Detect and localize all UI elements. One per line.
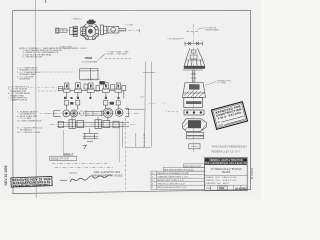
plan view handwheel nut (top) — [87, 20, 96, 25]
mid-right note text block A — [212, 146, 248, 154]
plan view left bolt flange — [70, 26, 78, 36]
svg-text:ADDED DRIP CONN. 3-2-37: ADDED DRIP CONN. 3-2-37 — [157, 179, 184, 182]
svg-text:10 - DRIP CONNECTION: 10 - DRIP CONNECTION — [17, 120, 42, 122]
title block small rows — [206, 176, 237, 185]
right elevation lower flange — [184, 110, 204, 115]
right elevation body dark band — [186, 101, 201, 104]
title block header bar 2 — [205, 162, 247, 165]
lower row fitting 2 — [95, 120, 110, 129]
view caption — [92, 171, 123, 177]
top valve cluster 4 — [94, 83, 109, 99]
notes block — [19, 46, 88, 59]
lower row drip stem — [83, 128, 99, 141]
inter-row connectors — [72, 117, 108, 121]
right elevation stem collars — [186, 48, 203, 60]
top valve cluster 3 — [81, 83, 94, 99]
tag detail leader — [98, 54, 105, 61]
svg-text:THE ALBUQUERQUE GAS & ELEC CO: THE ALBUQUERQUE GAS & ELEC CO — [205, 162, 247, 165]
main row big flange circle D — [103, 108, 113, 118]
svg-text:DWG: DWG — [206, 188, 212, 190]
leader dash group 2 — [38, 90, 62, 92]
svg-text:REVISED & REDRAWN 12-14-36: REVISED & REDRAWN 12-14-36 — [157, 172, 189, 175]
hatched body dark fill — [188, 120, 201, 128]
lower row centerline — [50, 124, 136, 126]
plan view left pipe — [56, 28, 68, 33]
dimension dash row 2 — [55, 166, 113, 168]
right elevation yoke flange — [184, 60, 205, 66]
main row flange circle B — [71, 110, 78, 117]
svg-text:5 - TEST AT 300 LBS: 5 - TEST AT 300 LBS — [19, 56, 43, 59]
right thread leader — [205, 82, 217, 86]
small dim dashes — [149, 103, 156, 105]
main row pipe lines — [85, 111, 103, 115]
plan view right valve unit — [108, 26, 126, 33]
svg-text:FEDERAL LIGHT & TRACTION: FEDERAL LIGHT & TRACTION — [209, 159, 242, 162]
top cluster extra fittings — [59, 84, 126, 99]
svg-text:REV. PER LETTER OF 12-4-36: REV. PER LETTER OF 12-4-36 — [164, 169, 194, 171]
title block number cell — [206, 186, 247, 191]
svg-text:FEDERAL L&T CO. N.Y.: FEDERAL L&T CO. N.Y. — [212, 150, 241, 153]
top valve cluster 1 — [63, 83, 70, 99]
right elevation bonnet cluster — [183, 83, 206, 98]
lower row fitting 3 — [59, 121, 120, 128]
right elevation centerline — [193, 24, 195, 153]
main row right C bracket — [125, 109, 129, 117]
top cluster bottom dots — [64, 97, 119, 99]
svg-text:NOV 16 1936: NOV 16 1936 — [4, 165, 8, 185]
svg-text:6 —: 6 — — [163, 103, 167, 105]
extension line from drip detail — [62, 130, 64, 156]
top cluster dark item — [99, 81, 105, 84]
left column callout text group 3 — [17, 111, 42, 123]
stem ticks — [191, 74, 197, 78]
svg-text:CHANGED VALVE SIZES 1-9-37: CHANGED VALVE SIZES 1-9-37 — [157, 176, 188, 179]
bonnet hatch dark center — [189, 84, 200, 89]
right elevation stem mid — [191, 70, 193, 83]
lower row pipe — [57, 123, 129, 127]
approval stamp (rotated) — [211, 102, 247, 130]
svg-text:THIS VALVE FURNISHED BY: THIS VALVE FURNISHED BY — [212, 146, 248, 149]
svg-text:VALVES: VALVES — [222, 171, 231, 174]
connectors above main row — [65, 100, 121, 110]
svg-text:SIDE - ELEVATION VIEW: SIDE - ELEVATION VIEW — [94, 171, 121, 174]
dimension dash row 1 — [52, 162, 109, 164]
dimension vertical pair — [144, 62, 147, 148]
paper grain — [0, 0, 261, 200]
svg-text:APPROVED AS NOTED 5-1-37: APPROVED AS NOTED 5-1-37 — [157, 186, 187, 189]
svg-text:¾ SQ STEM: ¾ SQ STEM — [167, 37, 179, 40]
view caption dash — [69, 172, 77, 174]
main row light circle C — [79, 111, 84, 116]
svg-text:DETAIL — THIS DWG: DETAIL — THIS DWG — [107, 53, 128, 56]
pipe end ticks — [86, 110, 102, 116]
tag detail box — [80, 68, 98, 79]
dimension tie bar — [143, 71, 155, 73]
leader dash group 2b — [30, 86, 58, 88]
right elevation handwheel — [185, 42, 202, 46]
svg-text:DRAWN J.B.K. DATE 10-12-3: DRAWN J.B.K. DATE 10-12-36 — [206, 176, 237, 179]
right elevation top cross — [186, 30, 199, 32]
left column callout text group 2 — [8, 85, 31, 102]
svg-text:TRACED R.M. SCALE 3"=1'-: TRACED R.M. SCALE 3"=1'-0" — [206, 179, 237, 182]
right elevation dark band — [184, 66, 205, 69]
svg-text:5062: 5062 — [219, 187, 225, 190]
svg-text:SEE DWG B-1491: SEE DWG B-1491 — [184, 166, 202, 168]
right elevation line under band — [183, 69, 203, 71]
svg-text:ITEM: ITEM — [85, 56, 93, 60]
plan view centerline — [56, 29, 140, 32]
signature squiggle — [70, 175, 112, 182]
small bottom box — [189, 144, 200, 151]
stacked rect upper — [186, 133, 204, 136]
top valve cluster 2 — [70, 83, 81, 99]
revision table — [151, 164, 205, 190]
plan view body flange (scalloped circle) — [82, 23, 99, 40]
stacked rect lower — [186, 136, 204, 139]
svg-text:SCREWED: SCREWED — [17, 79, 31, 81]
svg-text:SRO-Z: SRO-Z — [64, 152, 74, 156]
svg-text:CLAMP & BOLTS: CLAMP & BOLTS — [8, 99, 28, 102]
left column callout text group 1 — [17, 66, 41, 81]
lower row fitting 1 — [69, 120, 84, 129]
svg-text:B-15062: B-15062 — [236, 187, 248, 191]
dimension ladder right of caption — [123, 121, 152, 148]
main row centerline — [46, 112, 140, 114]
right elevation top leader — [197, 28, 205, 30]
leader dash group 1 — [42, 71, 75, 73]
fold crease line — [35, 0, 38, 198]
plan view stuffing box — [81, 27, 86, 35]
svg-text:TRACED & CHECKED 4-6-37: TRACED & CHECKED 4-6-37 — [157, 183, 186, 186]
svg-text:CHECKED W.S. APPR.: CHECKED W.S. APPR. — [206, 182, 230, 185]
lower flange leader — [168, 110, 179, 112]
svg-text:FLOW DIAGRAM: FLOW DIAGRAM — [82, 61, 97, 64]
title text — [211, 167, 242, 174]
extension line down right — [125, 118, 127, 190]
main row left C bracket — [54, 111, 61, 117]
svg-text:SCALE: 3"= 1'-0": SCALE: 3"= 1'-0" — [51, 158, 69, 161]
sheet border frame — [13, 11, 251, 194]
leader dash group 3 — [40, 113, 53, 115]
svg-text:STEM TRAVEL: STEM TRAVEL — [205, 29, 220, 32]
main row dark circle E — [115, 109, 123, 117]
main row flange circle A — [63, 110, 70, 117]
svg-text:¼ HANDLE: ¼ HANDLE — [71, 18, 82, 21]
left column callout text group 4 — [17, 126, 43, 134]
right elevation body upper — [184, 98, 203, 108]
plan view right flange plates — [100, 25, 106, 35]
right elevation hatched body — [183, 119, 207, 132]
title block — [205, 157, 248, 190]
extension line down left — [119, 122, 121, 162]
callout near plan with leader — [101, 49, 132, 58]
handwritten 7 mark — [83, 145, 87, 149]
dimension line mid (horizontal) — [126, 108, 145, 110]
scale label box — [50, 156, 77, 160]
plan view end tick — [138, 29, 140, 33]
top valve cluster 5 — [109, 83, 121, 99]
signature dash — [60, 179, 67, 181]
svg-text:B-15062: B-15062 — [250, 167, 254, 179]
fold crease top tick — [45, 0, 47, 3]
title block header bar 1 — [205, 158, 247, 161]
received stamp (bottom left) — [11, 176, 52, 188]
